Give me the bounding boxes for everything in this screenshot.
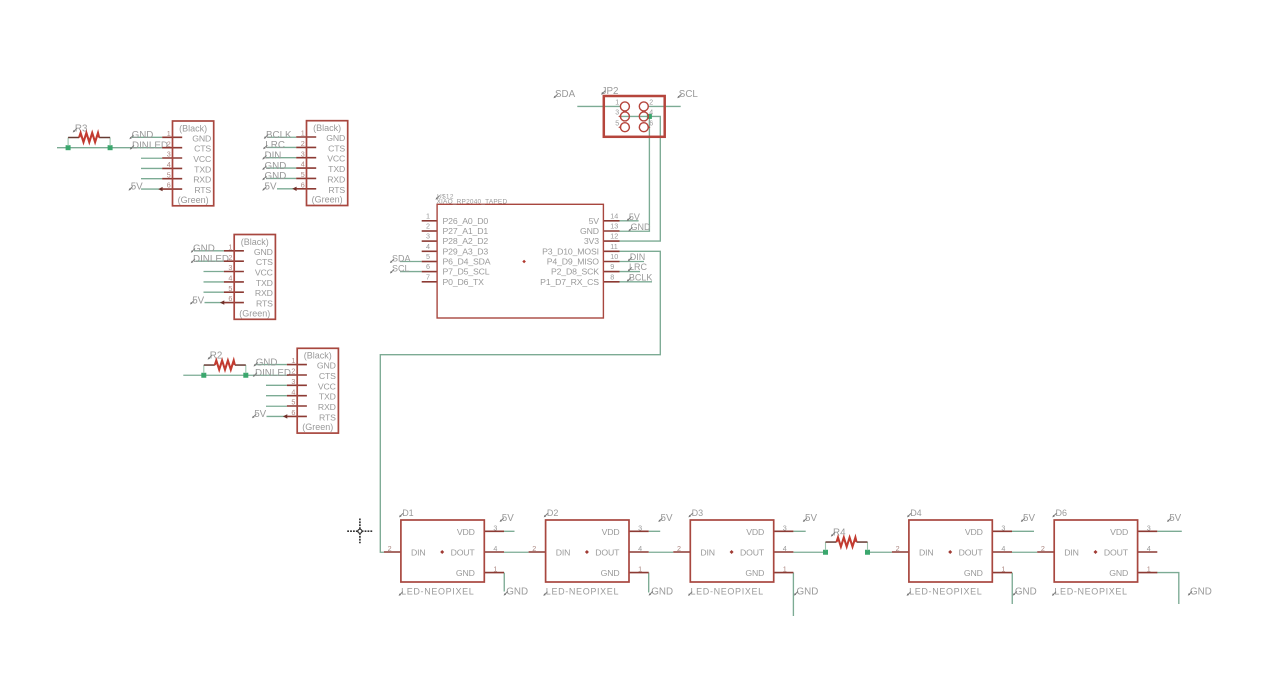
svg-text:1: 1 bbox=[426, 211, 430, 220]
svg-text:6: 6 bbox=[649, 120, 653, 127]
svg-text:3: 3 bbox=[426, 232, 430, 241]
svg-text:14: 14 bbox=[610, 211, 618, 220]
svg-text:9: 9 bbox=[610, 262, 614, 271]
svg-text:DIN: DIN bbox=[265, 151, 282, 162]
svg-text:D3: D3 bbox=[692, 508, 704, 518]
svg-text:2: 2 bbox=[426, 222, 430, 231]
svg-text:D4: D4 bbox=[910, 508, 922, 518]
svg-text:4: 4 bbox=[649, 109, 653, 116]
svg-text:DIN: DIN bbox=[630, 252, 646, 262]
svg-text:6: 6 bbox=[426, 262, 430, 271]
svg-text:1: 1 bbox=[615, 100, 619, 107]
svg-text:GND: GND bbox=[265, 171, 287, 182]
svg-text:P4_D9_MISO: P4_D9_MISO bbox=[547, 257, 599, 267]
svg-text:5: 5 bbox=[615, 120, 619, 127]
svg-text:5: 5 bbox=[426, 252, 430, 261]
svg-text:SDA: SDA bbox=[392, 253, 411, 263]
svg-text:DINLED: DINLED bbox=[132, 141, 168, 152]
svg-text:SDA: SDA bbox=[555, 89, 576, 100]
svg-text:BCLK: BCLK bbox=[629, 273, 653, 283]
svg-text:GND: GND bbox=[651, 587, 673, 598]
svg-text:GND: GND bbox=[506, 587, 528, 598]
svg-text:8: 8 bbox=[610, 272, 614, 281]
svg-text:GND: GND bbox=[631, 222, 652, 232]
svg-text:GND: GND bbox=[132, 130, 154, 141]
svg-text:GND: GND bbox=[797, 587, 819, 598]
svg-text:P1_D7_RX_CS: P1_D7_RX_CS bbox=[540, 277, 599, 287]
svg-text:GND: GND bbox=[1190, 587, 1212, 598]
svg-text:P27_A1_D1: P27_A1_D1 bbox=[443, 226, 489, 236]
svg-text:P6_D4_SDA: P6_D4_SDA bbox=[443, 257, 491, 267]
svg-text:P26_A0_D0: P26_A0_D0 bbox=[443, 216, 489, 226]
svg-text:GND: GND bbox=[580, 226, 599, 236]
svg-text:P28_A2_D2: P28_A2_D2 bbox=[443, 236, 489, 246]
svg-text:12: 12 bbox=[610, 232, 618, 241]
svg-text:P7_D5_SCL: P7_D5_SCL bbox=[443, 267, 490, 277]
svg-text:2: 2 bbox=[649, 100, 653, 107]
svg-text:3: 3 bbox=[615, 109, 619, 116]
svg-text:SCL: SCL bbox=[392, 264, 410, 274]
svg-text:P0_D6_TX: P0_D6_TX bbox=[443, 277, 485, 287]
svg-text:GND: GND bbox=[1015, 587, 1037, 598]
svg-text:XIAO_RP2040_TAPED: XIAO_RP2040_TAPED bbox=[437, 198, 508, 205]
svg-text:D6: D6 bbox=[1056, 508, 1068, 518]
svg-text:P3_D10_MOSI: P3_D10_MOSI bbox=[542, 246, 599, 256]
svg-text:7: 7 bbox=[426, 272, 430, 281]
svg-text:4: 4 bbox=[426, 242, 430, 251]
svg-text:GND: GND bbox=[193, 244, 215, 255]
svg-text:SCL: SCL bbox=[679, 89, 699, 100]
svg-text:GND: GND bbox=[256, 357, 278, 368]
svg-text:13: 13 bbox=[610, 222, 618, 231]
svg-text:3V3: 3V3 bbox=[584, 236, 599, 246]
svg-text:DINLED: DINLED bbox=[255, 368, 291, 379]
svg-text:BCLK: BCLK bbox=[266, 130, 292, 141]
svg-text:11: 11 bbox=[610, 242, 617, 251]
svg-text:D2: D2 bbox=[547, 508, 559, 518]
svg-text:10: 10 bbox=[610, 252, 618, 261]
svg-text:P29_A3_D3: P29_A3_D3 bbox=[443, 246, 489, 256]
svg-text:D1: D1 bbox=[402, 508, 414, 518]
svg-text:5V: 5V bbox=[589, 216, 600, 226]
svg-text:P2_D8_SCK: P2_D8_SCK bbox=[551, 267, 599, 277]
svg-text:DINLED: DINLED bbox=[193, 254, 229, 265]
